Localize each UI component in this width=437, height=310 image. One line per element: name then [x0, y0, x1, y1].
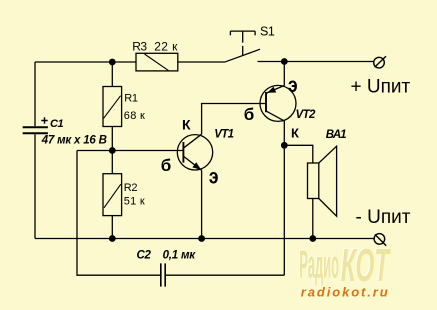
svg-text:б: б — [244, 105, 255, 124]
svg-text:VT2: VT2 — [296, 109, 316, 121]
svg-text:К: К — [182, 117, 191, 133]
svg-text:47 мк x 16 В: 47 мк x 16 В — [41, 134, 107, 146]
svg-text:Радио: Радио — [299, 244, 339, 287]
svg-text:К: К — [291, 125, 299, 140]
svg-text:BA1: BA1 — [326, 129, 346, 141]
svg-text:VT1: VT1 — [214, 128, 233, 140]
svg-text:R1: R1 — [124, 93, 138, 105]
svg-text:51 к: 51 к — [124, 195, 145, 207]
svg-text:radiokot.ru: radiokot.ru — [301, 285, 390, 300]
svg-text:C2: C2 — [137, 250, 152, 262]
svg-text:э: э — [209, 166, 219, 189]
svg-text:+ Uпит: + Uпит — [351, 76, 411, 97]
svg-text:- Uпит: - Uпит — [356, 207, 411, 228]
svg-text:22 к: 22 к — [154, 40, 178, 54]
svg-text:R2: R2 — [124, 182, 138, 194]
svg-text:C1: C1 — [50, 118, 64, 130]
svg-text:б: б — [161, 156, 172, 175]
svg-text:0,1 мк: 0,1 мк — [163, 250, 197, 262]
svg-text:68 к: 68 к — [124, 110, 145, 122]
svg-text:S1: S1 — [260, 24, 275, 38]
svg-text:э: э — [288, 75, 298, 98]
svg-text:R3: R3 — [132, 40, 147, 54]
svg-text:КОТ: КОТ — [341, 240, 392, 291]
